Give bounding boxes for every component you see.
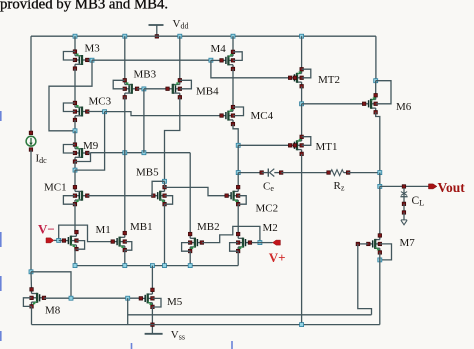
wire M8 bulk-source tie <box>23 298 31 307</box>
wire middle column to Ce node <box>237 145 239 172</box>
wire MC3 bulk to node <box>87 111 104 113</box>
ground Vss symbol <box>145 329 185 342</box>
node output-Vout junction <box>378 184 382 188</box>
node MT2 output junction <box>300 102 304 106</box>
wire left rail to M8 drain <box>30 272 33 289</box>
label MC3 <box>89 96 112 108</box>
transistor M7 <box>367 234 382 255</box>
node M8 drain junction on left rail <box>29 270 33 274</box>
wire M3 output U-loop to MC3 source node <box>49 60 92 131</box>
wire MT2 source to M6 gate node <box>301 86 303 103</box>
label M6 <box>396 101 412 113</box>
node junction on top rail above M3 <box>73 34 77 38</box>
wire MC3 bias to MC4 gate <box>105 112 222 116</box>
wire M7 gate lead with pin squares <box>356 242 368 246</box>
wire MB5 drain node stub <box>164 181 166 187</box>
transistor M9 <box>73 143 89 164</box>
wire left rail upper (Vdd rail to Idc) <box>30 36 32 133</box>
capacitor CL to ground arrow <box>400 188 407 225</box>
svg-text:M7: M7 <box>400 237 416 249</box>
wire M4 drain to rail <box>232 36 234 52</box>
wire MB1 bulk-source tie <box>125 242 132 251</box>
wire MC1 bulk to MB5 gate <box>87 195 153 197</box>
label V- <box>38 222 55 237</box>
svg-text:MB5: MB5 <box>136 166 159 178</box>
wire MB1 source to bus <box>124 250 126 265</box>
wire M3 gate-drain loop <box>63 52 75 61</box>
label MB4 <box>196 85 219 97</box>
wire MC3 gate-drain loop <box>63 103 75 112</box>
label MB2 <box>197 221 220 233</box>
wire bias rail down to MB2 drain <box>189 153 191 234</box>
wire V- node to M1 gate <box>59 240 64 242</box>
Vdd power symbol <box>149 18 189 38</box>
wire M5 bulk-source tie <box>152 298 161 307</box>
label MC1 <box>44 181 67 193</box>
wire M7 source down to bottom rail <box>379 252 381 324</box>
wire M7 bulk loop to source node <box>380 244 392 260</box>
label M8 <box>45 304 61 316</box>
node M4 gate junction <box>209 58 213 62</box>
node Ce junction <box>236 171 240 175</box>
wire MB5 source to bus <box>164 204 166 265</box>
svg-text:M9: M9 <box>83 140 99 152</box>
node junction on top rail above MB4 <box>178 34 182 38</box>
wire top rail right corner down to M6 <box>375 36 377 80</box>
svg-text:MC3: MC3 <box>89 96 112 108</box>
wire M2 gate to V+ node <box>252 242 260 244</box>
node CL tap red <box>402 185 406 189</box>
node V- input <box>57 238 61 242</box>
transistor MC1 <box>73 185 89 206</box>
svg-text:V+: V+ <box>269 250 286 265</box>
wire MC4 source jog to middle column <box>233 124 238 145</box>
wire M9 bulk-source tie <box>75 153 91 162</box>
label CL <box>412 195 425 208</box>
svg-text:MC2: MC2 <box>256 203 279 215</box>
capacitor Ce <box>260 169 283 177</box>
transistor MB1 <box>111 231 127 252</box>
node junction on top rail above MT2 <box>300 34 304 38</box>
node bus MB2 <box>188 264 192 268</box>
wire MB3 drain to rail <box>124 36 126 80</box>
label M2 <box>263 222 278 234</box>
wire MC2 source to M2 drain <box>237 204 239 234</box>
svg-text:M6: M6 <box>396 101 412 113</box>
wire MB2 gate staircase to V+ node <box>202 226 260 242</box>
node bus M5 <box>150 264 154 268</box>
label M1 <box>96 224 111 236</box>
wire MB3 source down to MB1 drain <box>124 97 126 233</box>
wire MB5 bulk-source tie <box>165 196 173 205</box>
transistor M6 <box>362 94 377 115</box>
wire M3 bulk to node <box>87 59 92 61</box>
node M7 source junction <box>378 258 382 262</box>
wire node to MB4 bulk <box>144 88 168 90</box>
wire MB2 source to bus <box>189 251 191 265</box>
label M3 <box>85 43 101 55</box>
current source Idc <box>26 131 47 165</box>
wire MT2 drain-bulk loop <box>302 69 311 78</box>
wire MB3 bulk to node <box>137 88 144 90</box>
label MB3 <box>134 69 157 81</box>
wire M1 source to bus <box>74 249 76 265</box>
transistor MT1 <box>288 135 303 156</box>
node M9 source junction <box>73 168 77 172</box>
wire M8-M5 gate bias <box>44 297 141 299</box>
transistor MB5 <box>152 185 167 206</box>
node MT1 source on R2 <box>300 323 304 327</box>
wire Ce to Rz <box>281 172 328 174</box>
wire M9 source to node <box>74 162 76 171</box>
node MT1 gate junction <box>236 143 240 147</box>
svg-text:CL: CL <box>412 195 425 208</box>
label MB5 <box>136 166 159 178</box>
wire MC4 drain-bulk loop <box>233 107 244 116</box>
wire MT1 drain-bulk loop <box>302 137 311 146</box>
wire node to MC1 drain <box>74 170 76 187</box>
label MB1 <box>130 221 153 233</box>
resistor Rz <box>327 170 350 176</box>
wire MB3 gate-drain loop <box>113 80 125 89</box>
label MC2 <box>256 203 279 215</box>
node bus MB1 <box>123 264 127 268</box>
wire bottom rail R2 Vss <box>32 324 380 326</box>
wire M5 drain riser from bus <box>151 266 153 290</box>
svg-text:MC1: MC1 <box>44 181 67 193</box>
svg-text:MB3: MB3 <box>134 69 157 81</box>
transistor MB4 <box>166 79 182 100</box>
svg-text:M1: M1 <box>96 224 111 236</box>
wire M1 bulk-source tie <box>76 241 84 250</box>
scan artifact marks <box>1 111 232 349</box>
node M3 output <box>90 58 94 62</box>
node Vss pin <box>151 323 155 327</box>
node MC3 source junction <box>73 129 77 133</box>
transistor M1 <box>62 230 78 251</box>
node output-Rz junction <box>378 171 382 175</box>
wire MC1 gate-source loop <box>63 196 75 205</box>
wire M2 bulk-source tie <box>230 243 239 252</box>
label M4 <box>211 43 227 55</box>
label MT2 <box>318 74 340 86</box>
node MC3 bias output <box>103 110 107 114</box>
wire V+ node stub <box>260 242 273 244</box>
wire M4 source to MC4 drain <box>232 69 234 107</box>
node junction MB3 column on bias rail <box>123 151 127 155</box>
label V+ <box>269 250 286 265</box>
transistor M3 <box>73 50 89 71</box>
wire MB4 gate-drain loop <box>180 80 192 89</box>
wire MB5 drain to MC2 gate <box>165 187 227 195</box>
wire node to M9 drain <box>74 131 76 145</box>
svg-text:MB1: MB1 <box>130 221 153 233</box>
wire M3 output to M4 gate node <box>92 59 211 61</box>
wire tail-current bus <box>75 265 238 267</box>
svg-text:MT1: MT1 <box>316 141 338 153</box>
caption text fragment: provided by MB3 and MB4. <box>0 0 168 13</box>
wire MT2 output to M6 gate <box>302 103 365 105</box>
wire middle column to MC2 drain <box>237 173 239 188</box>
svg-text:M2: M2 <box>263 222 278 234</box>
wire MB5 gate loop to drain node <box>152 181 164 195</box>
svg-text:M5: M5 <box>167 296 183 308</box>
wire node to M4 gate <box>211 59 222 61</box>
wire M2 source to bus <box>237 251 239 265</box>
wire compensation branch Ce left segment <box>238 172 261 174</box>
node MB3-MB4 gate junction <box>142 87 146 91</box>
label M5 <box>167 296 183 308</box>
wire M9 bias to MB gates rail <box>91 152 191 154</box>
wire M5 source to Vss <box>151 307 153 334</box>
node gate bias right junction <box>126 296 130 300</box>
label Ce <box>263 180 274 193</box>
wire MB2 bulk-source tie <box>182 243 191 252</box>
wire M3 drain to rail <box>74 36 76 51</box>
node bus MB5 <box>163 264 167 268</box>
transistor MT2 <box>288 68 303 89</box>
node MB5 drain junction <box>163 179 167 183</box>
wire M4 drain-bulk loop <box>233 52 242 61</box>
node M6 drain junction <box>374 79 378 83</box>
wire MC1 source to M1 drain <box>74 204 76 232</box>
wire MB4 source jog down to MB5 node <box>165 97 180 181</box>
node junction MB gate column on bias rail <box>142 151 146 155</box>
wire MT2 drain to rail <box>301 36 303 69</box>
node V+ input <box>258 241 262 245</box>
transistor MC2 <box>225 185 240 206</box>
input port V+ arrow <box>273 240 281 245</box>
label M7 <box>400 237 416 249</box>
svg-text:Vout: Vout <box>438 180 466 195</box>
output port Vout arrow <box>429 184 437 189</box>
wire M9 gate-drain loop <box>63 145 75 154</box>
wire bottom rail R1 <box>128 314 372 316</box>
svg-text:MB4: MB4 <box>196 85 219 97</box>
transistor M2 <box>236 232 251 253</box>
wire M8 gate bracket from left rail <box>31 272 71 298</box>
node bus M1 <box>73 264 77 268</box>
label M9 <box>83 140 99 152</box>
wire output column to M7 drain <box>379 186 381 235</box>
wire MB4 drain to rail <box>179 36 181 80</box>
svg-text:M4: M4 <box>211 43 227 55</box>
wire node to MC3 bias node riser <box>75 112 105 170</box>
transistor M8 <box>30 288 46 309</box>
wire M6 source down output column <box>376 112 380 173</box>
svg-text:provided by MB3 and MB4.: provided by MB3 and MB4. <box>0 0 168 13</box>
label Vout <box>438 180 466 195</box>
wire junction riser to bottom rails <box>127 298 129 324</box>
wire M8 source to bottom rail <box>31 306 33 324</box>
node junction on top rail above MB3 <box>123 34 127 38</box>
wire node down to MT1 drain <box>301 104 303 137</box>
wire MT1 source down to bottom rail <box>301 154 303 325</box>
node junction on top rail above M4 <box>231 34 235 38</box>
transistor MC3 <box>73 101 89 122</box>
wire V- over-bracket to MB1 gate <box>59 225 113 242</box>
wire M4 gate node down to MT2 gate <box>211 60 290 78</box>
wire output column segment <box>379 173 381 187</box>
wire Vout tap <box>380 185 429 187</box>
label MT1 <box>316 141 338 153</box>
transistor MC4 <box>220 105 235 126</box>
wire MB gate node down to bias rail <box>143 89 145 153</box>
svg-text:V−: V− <box>38 222 55 237</box>
transistor M5 <box>139 288 154 309</box>
svg-text:MC4: MC4 <box>251 110 274 122</box>
transistor MB2 <box>188 232 203 253</box>
svg-text:M3: M3 <box>85 43 101 55</box>
label MC4 <box>251 110 274 122</box>
wire MT1 gate wire <box>238 144 290 146</box>
transistor MB3 <box>123 79 139 100</box>
wire M7 gate staircase to rail R1 <box>358 244 372 315</box>
transistor M4 <box>220 50 235 71</box>
wire Vdd top rail <box>31 35 376 37</box>
wire Rz to output column <box>347 172 379 174</box>
wire M6 drain stub <box>375 81 377 96</box>
svg-text:M8: M8 <box>45 304 61 316</box>
svg-text:MT2: MT2 <box>318 74 340 86</box>
input port V- arrow <box>46 238 57 243</box>
wire M3 source to MC3 drain <box>74 69 76 104</box>
wire MC2 bulk-source tie <box>238 196 246 205</box>
wire left rail lower (Idc to M8) <box>30 150 32 272</box>
node gate bias left junction <box>69 296 73 300</box>
label Rz <box>334 180 345 193</box>
svg-text:MB2: MB2 <box>197 221 220 233</box>
wire MC3 source to node <box>74 120 76 131</box>
wire M6 drain-node to bulk loop <box>376 81 391 104</box>
